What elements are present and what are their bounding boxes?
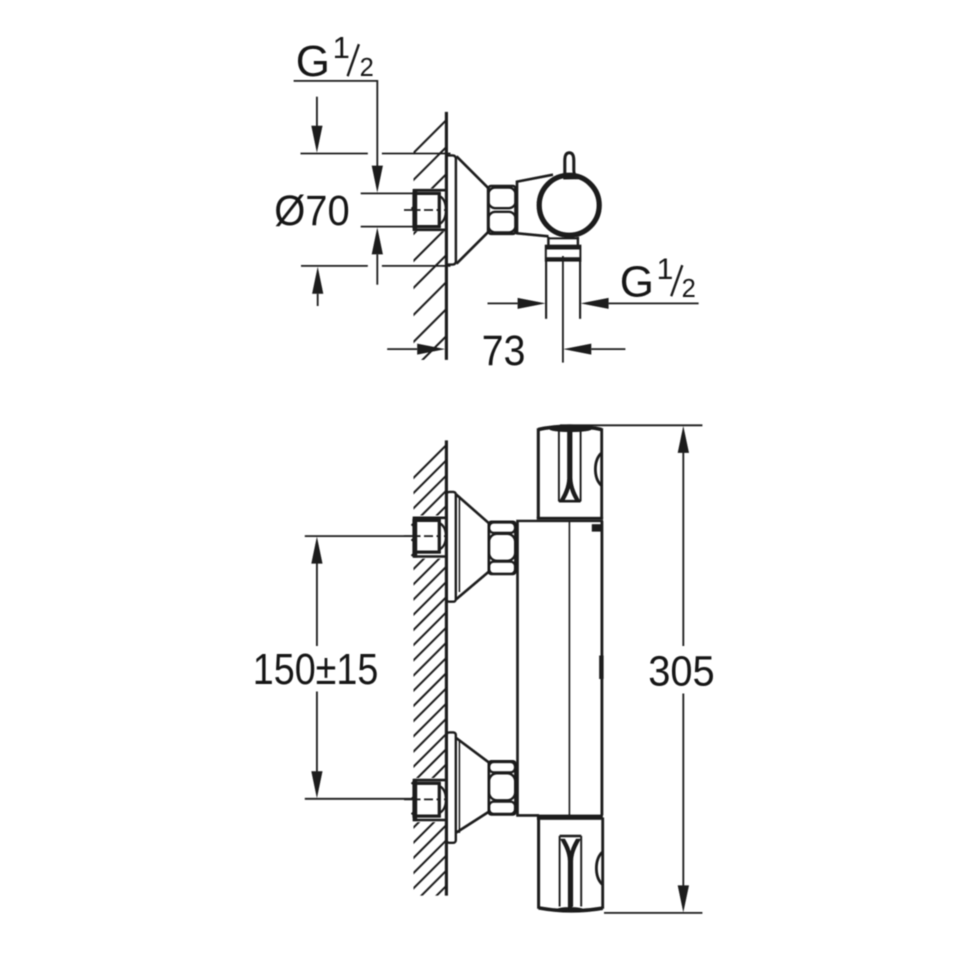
upper escutcheon cone highlight — [458, 499, 460, 593]
dimension 150±15 extension lines — [305, 535, 414, 537]
dimension 73 arrow at pipe centerline — [563, 344, 591, 355]
O70 dimension arrow up — [312, 267, 323, 294]
upper union fitting square (front view) — [414, 520, 439, 552]
upper escutcheon cone (front view) — [456, 495, 489, 524]
escutcheon cone (top view) — [457, 156, 489, 188]
union fitting dome (top view) — [440, 196, 446, 224]
temperature handle grip groove — [558, 432, 560, 502]
svg-text:2: 2 — [682, 275, 696, 303]
body side button mark — [599, 656, 603, 680]
leader underline of G 1/2 label — [294, 81, 378, 166]
arrow leader G1/2 down to thread top — [372, 166, 383, 193]
svg-text:73: 73 — [482, 327, 526, 375]
wall hatching (top view) — [412, 120, 447, 398]
dimension 305 extension lines — [560, 424, 702, 426]
upper escutcheon flange (front view) — [447, 492, 456, 602]
lower escutcheon flange (front view) — [447, 732, 456, 842]
svg-text:1: 1 — [333, 30, 350, 65]
body detail square (mousseur/button) — [592, 524, 601, 531]
union fitting square (top view) — [414, 193, 439, 226]
extension line escutcheon top (O70) — [301, 153, 368, 155]
knob pin (top view) — [565, 153, 579, 178]
lower escutcheon cone highlight — [458, 740, 460, 834]
upper inlet centerline — [404, 535, 447, 537]
outlet G1/2 dimension arrows at pipe — [488, 302, 518, 304]
label G 1/2 (wall inlet thread, top view) — [296, 30, 374, 86]
shower outlet pipe (top view) — [545, 261, 547, 319]
svg-text:G: G — [620, 257, 654, 306]
svg-text:150±15: 150±15 — [253, 645, 378, 694]
union fitting flange (top view) — [414, 189, 447, 192]
svg-text:1: 1 — [657, 253, 674, 286]
extension line escutcheon bottom (O70) — [301, 265, 368, 267]
temperature handle (front view, top) — [538, 426, 601, 429]
dimension 73 arrow at wall — [387, 348, 417, 350]
upper union fitting flange (front view) — [414, 516, 447, 519]
fraction slash of G 1/2 label — [348, 44, 359, 76]
dimension 150±15 line and arrows — [311, 537, 322, 564]
thermostat knob circle (top view) — [539, 175, 599, 235]
flow handle side bump — [596, 852, 602, 885]
lower union fitting flange (front view) — [414, 779, 447, 782]
dimension 305 line and arrows — [678, 426, 689, 453]
upper union nut (front view) — [489, 522, 516, 574]
outlet collar (top view) — [546, 246, 581, 261]
thread extent lines (G1/2 nipple) — [361, 192, 414, 194]
svg-text:2: 2 — [360, 54, 374, 82]
centerline of inlet (top view) — [404, 209, 447, 211]
lower inlet centerline — [404, 798, 447, 800]
pipe centerline — [562, 256, 564, 363]
opposing arrow up to thread bottom — [372, 227, 383, 254]
flow handle grip groove — [559, 836, 561, 907]
temperature handle side bump — [595, 453, 601, 486]
label G 1/2 (outlet thread) — [620, 253, 696, 307]
svg-text:Ø70: Ø70 — [274, 188, 350, 235]
wall section line (top view) — [445, 112, 448, 360]
outlet neck (top view) — [547, 237, 549, 246]
wall hatching (front view) — [412, 445, 447, 936]
valve body (top view) — [516, 181, 519, 233]
svg-text:G: G — [296, 37, 330, 86]
flow handle (front view, bottom) — [537, 815, 603, 820]
lower union fitting dome — [440, 786, 446, 813]
union nut (top view) — [489, 186, 516, 234]
lower union nut (front view) — [489, 761, 516, 814]
lower union fitting square (front view) — [414, 783, 439, 816]
escutcheon flange (top view) — [447, 155, 456, 264]
upper union fitting dome — [440, 523, 446, 549]
body interior line — [568, 521, 570, 815]
wall section line (front view) — [445, 440, 448, 895]
fraction slash of outlet G 1/2 — [671, 265, 682, 296]
O70 dimension arrow down — [316, 97, 318, 127]
mixer body (front view) — [516, 521, 519, 816]
lower escutcheon cone (front view) — [456, 738, 489, 763]
svg-text:305: 305 — [648, 647, 715, 695]
